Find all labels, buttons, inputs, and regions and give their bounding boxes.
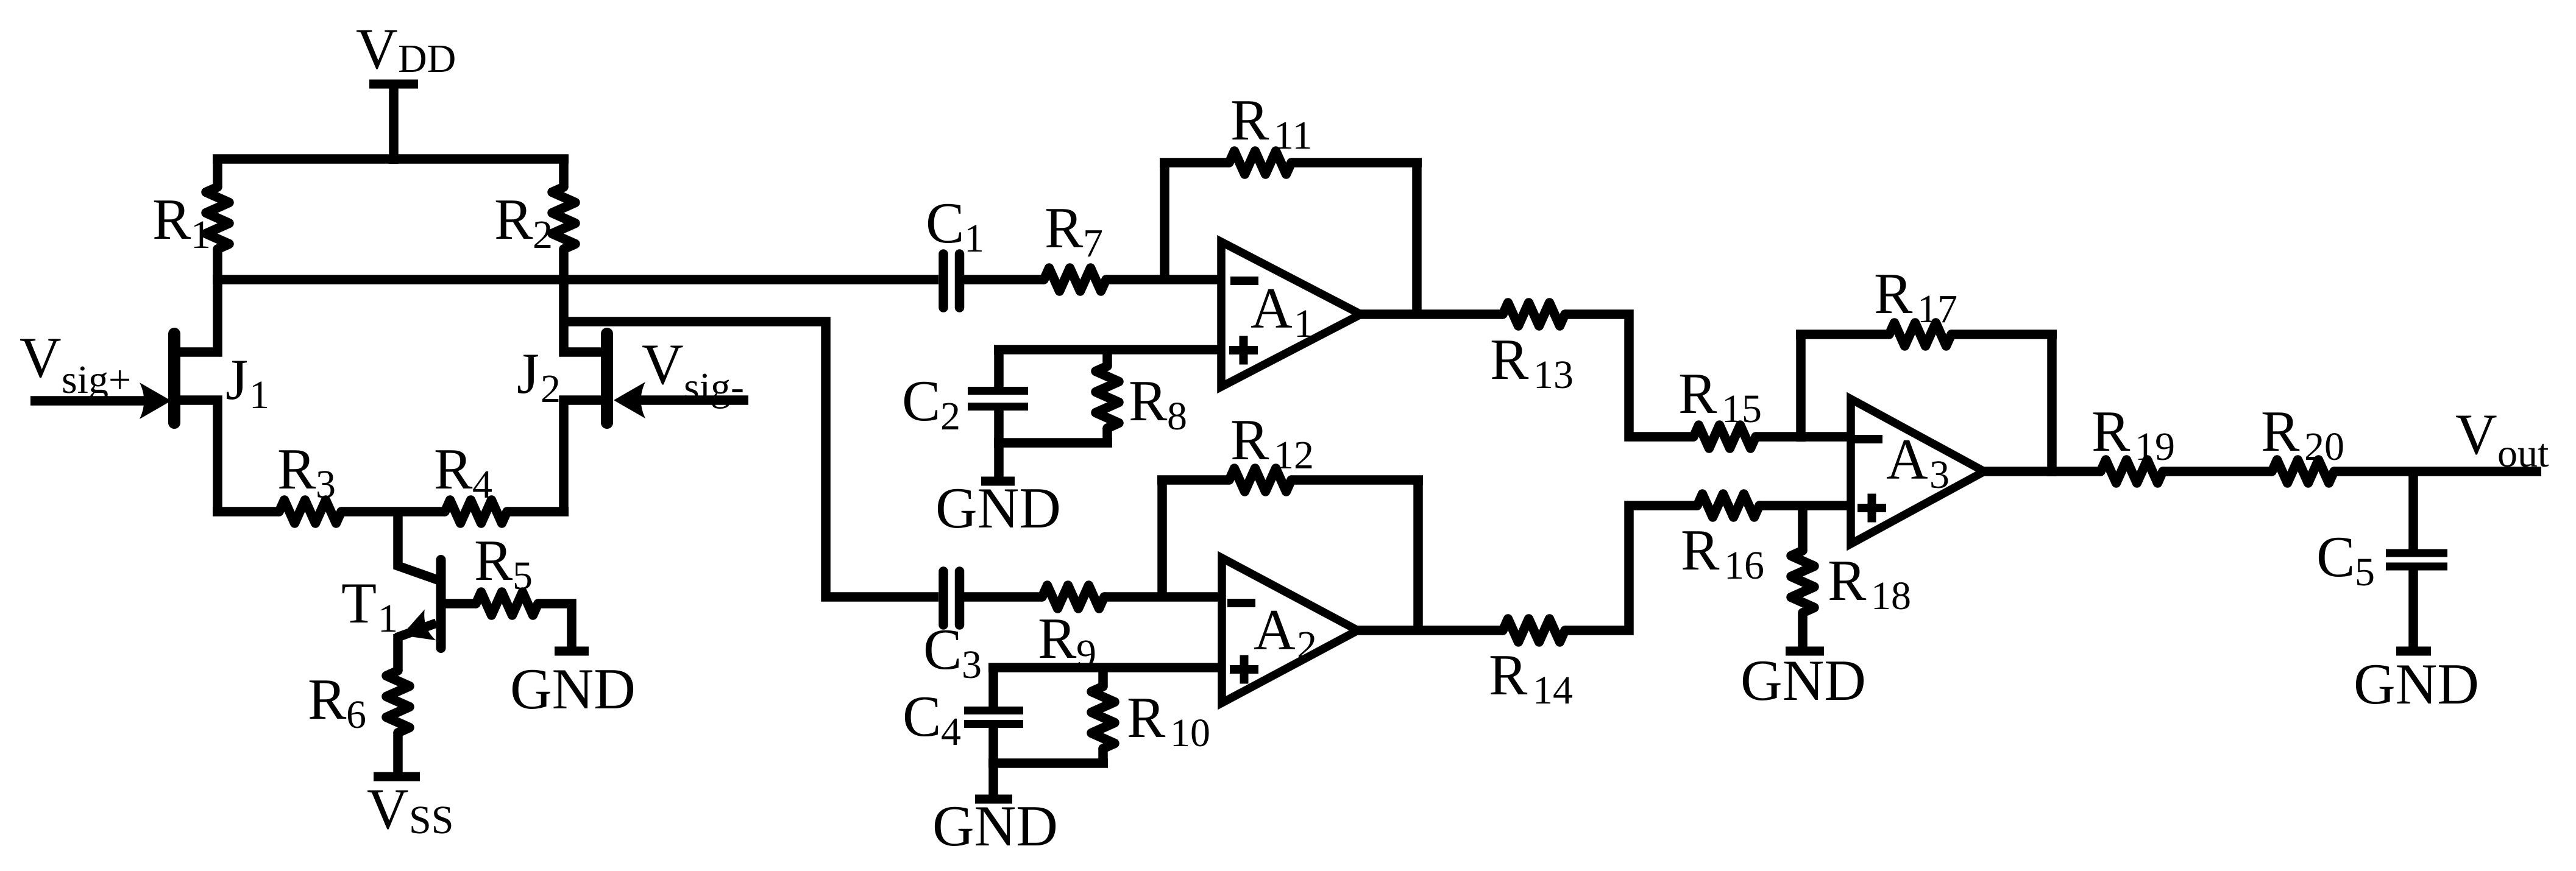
- svg-text:A: A: [1886, 427, 1928, 492]
- label R15: [1678, 361, 1762, 431]
- svg-text:C: C: [926, 191, 964, 255]
- svg-text:R: R: [1681, 518, 1720, 582]
- capacitor C1: [943, 254, 960, 308]
- capacitor C2: [968, 350, 1028, 481]
- label R18: [1828, 548, 1911, 618]
- svg-text:R: R: [434, 437, 473, 501]
- svg-text:R: R: [2092, 399, 2131, 464]
- arrow Vsig- into J2 gate: [614, 382, 645, 418]
- svg-text:19: 19: [2135, 425, 2175, 469]
- op-amp A3 minus sign: [1854, 435, 1882, 443]
- svg-text:C: C: [923, 617, 962, 682]
- wire source bus left: [213, 507, 279, 517]
- svg-text:R: R: [308, 667, 347, 732]
- wire source bus mid: [341, 507, 445, 517]
- wire drain bus to C1: [213, 275, 939, 284]
- svg-text:C: C: [2316, 524, 2355, 589]
- svg-text:DD: DD: [398, 37, 456, 81]
- svg-text:5: 5: [513, 554, 533, 598]
- wire R10 bottom to C4: [988, 758, 1108, 768]
- label R14: [1489, 643, 1573, 713]
- label R5: [474, 528, 533, 598]
- transistor J2 gate bar: [601, 334, 613, 423]
- wire R11 loop top-right: [1291, 158, 1422, 167]
- svg-text:GND: GND: [1740, 648, 1866, 713]
- wire R11 loop left: [1160, 163, 1169, 283]
- wire R5 to ground: [538, 604, 572, 649]
- wire R13 to R15 corner: [1565, 314, 1694, 437]
- transistor J1 gate bar: [168, 334, 180, 423]
- wire A1 output: [1357, 309, 1503, 319]
- svg-text:R: R: [1489, 643, 1528, 707]
- label R13: [1490, 327, 1574, 397]
- label GND (C4): [932, 794, 1058, 858]
- label A1: [1251, 276, 1314, 346]
- svg-text:2: 2: [541, 367, 561, 411]
- wire C3 to R9: [964, 592, 1042, 602]
- svg-text:R: R: [1678, 361, 1717, 426]
- wire top bus R1-R2: [213, 154, 569, 164]
- svg-text:J: J: [225, 347, 248, 412]
- svg-text:5: 5: [2355, 550, 2375, 594]
- wire R17 loop top-right: [1951, 330, 2057, 339]
- arrow T1 emitter: [402, 610, 436, 641]
- op-amp A1: [1221, 242, 1361, 387]
- resistor R8: [1096, 350, 1119, 443]
- svg-text:GND: GND: [510, 657, 636, 721]
- resistor R12: [1229, 468, 1291, 492]
- svg-text:13: 13: [1533, 353, 1574, 397]
- capacitor C5: [2386, 471, 2447, 647]
- wire R9 to A2 inverting input: [1104, 592, 1225, 602]
- resistor R7: [1044, 268, 1106, 291]
- op-amp A3: [1851, 399, 1984, 544]
- label GND (R18): [1740, 648, 1866, 713]
- ground bar R18: [1786, 647, 1824, 656]
- label R12: [1230, 407, 1314, 478]
- svg-text:7: 7: [1083, 221, 1103, 266]
- transistor T1 base lead: [444, 599, 476, 608]
- wire R12 loop left: [1157, 480, 1167, 601]
- wire R17 loop top-left: [1796, 330, 1889, 339]
- svg-text:2: 2: [1297, 623, 1317, 668]
- svg-text:R: R: [1490, 327, 1529, 392]
- op-amp A3 plus sign: [1857, 494, 1886, 523]
- svg-text:sig-: sig-: [684, 365, 744, 409]
- wire R11 loop top-left: [1160, 158, 1229, 167]
- svg-text:R: R: [474, 528, 513, 593]
- resistor R13: [1503, 303, 1565, 326]
- wire R12 loop right: [1413, 480, 1423, 635]
- label R17: [1874, 261, 1957, 331]
- wire A2 output: [1354, 626, 1503, 635]
- svg-text:V: V: [367, 777, 409, 841]
- svg-text:R: R: [152, 187, 191, 252]
- label Vout: [2455, 402, 2549, 476]
- svg-text:R: R: [1230, 407, 1269, 472]
- svg-text:A: A: [1251, 276, 1293, 340]
- svg-text:R: R: [1874, 261, 1913, 326]
- svg-text:R: R: [2261, 399, 2300, 464]
- svg-text:sig+: sig+: [62, 358, 131, 402]
- svg-text:3: 3: [962, 643, 982, 687]
- label C2: [902, 368, 960, 439]
- svg-text:3: 3: [316, 462, 336, 507]
- ground bar C2: [981, 477, 1015, 486]
- wire source bus right: [507, 507, 569, 517]
- svg-text:12: 12: [1274, 433, 1314, 478]
- svg-text:J: J: [517, 341, 539, 406]
- svg-text:1: 1: [191, 213, 211, 257]
- transistor J2 source lead: [564, 400, 606, 517]
- label R10: [1127, 685, 1210, 755]
- supply VSS bar: [374, 772, 420, 781]
- svg-text:V: V: [20, 325, 62, 390]
- label R6: [308, 667, 366, 737]
- arrow Vsig+ into J1 gate: [140, 383, 171, 419]
- label C5: [2316, 524, 2375, 594]
- svg-text:GND: GND: [935, 476, 1061, 540]
- svg-text:18: 18: [1871, 574, 1911, 618]
- svg-text:GND: GND: [2354, 652, 2479, 716]
- svg-text:8: 8: [1167, 394, 1187, 439]
- transistor J2 drain lead: [564, 280, 606, 352]
- label C4: [903, 684, 961, 754]
- ground bar C4: [975, 795, 1012, 804]
- label C3: [923, 617, 982, 687]
- wire R17 loop right: [2047, 334, 2057, 476]
- svg-text:1: 1: [249, 373, 269, 417]
- svg-text:2: 2: [533, 213, 553, 257]
- wire R20 to Vout: [2334, 467, 2541, 476]
- wire R19 to R20: [2163, 467, 2272, 476]
- wire R16 to A3 plus input: [1759, 501, 1854, 510]
- label R16: [1681, 518, 1764, 588]
- resistor R20: [2272, 460, 2334, 483]
- ground bar R5: [555, 647, 589, 656]
- wire J2 drain to C3 channel: [564, 322, 939, 597]
- label Vsig+: [20, 325, 131, 402]
- wire Vsig+ lead: [30, 396, 146, 406]
- resistor R2: [552, 159, 575, 284]
- resistor R15: [1694, 425, 1756, 448]
- label R4: [434, 437, 492, 507]
- svg-text:20: 20: [2304, 425, 2344, 469]
- svg-text:C: C: [902, 368, 940, 433]
- wire A3 output: [1981, 467, 2101, 476]
- capacitor C4: [964, 668, 1023, 799]
- label GND (R5): [510, 657, 636, 721]
- svg-text:out: out: [2497, 431, 2549, 476]
- label J1: [225, 347, 269, 417]
- transistor J1 drain lead: [176, 280, 218, 352]
- svg-text:16: 16: [1724, 543, 1764, 588]
- svg-text:3: 3: [1929, 453, 1950, 497]
- transistor T1 collector: [398, 507, 438, 580]
- label C1: [926, 191, 984, 261]
- resistor R16: [1697, 494, 1759, 517]
- op-amp A1 minus sign: [1230, 277, 1258, 285]
- transistor T1 emitter: [396, 623, 436, 638]
- ground bar C5: [2396, 647, 2431, 656]
- svg-text:V: V: [2455, 402, 2497, 467]
- wire R11 loop right: [1412, 163, 1422, 318]
- svg-text:R: R: [277, 437, 316, 501]
- resistor R3: [279, 500, 341, 523]
- wire R7 to A1 inverting input: [1106, 275, 1225, 284]
- label A2: [1254, 598, 1317, 668]
- label J2: [517, 341, 561, 411]
- wire R17 loop left: [1796, 334, 1806, 442]
- label R1: [152, 187, 211, 257]
- resistor R5: [476, 592, 538, 615]
- resistor R6: [386, 634, 410, 777]
- svg-text:11: 11: [1274, 113, 1313, 158]
- svg-text:R: R: [1045, 196, 1084, 260]
- svg-text:V: V: [642, 332, 684, 397]
- wire VDD stub: [389, 84, 399, 164]
- svg-text:T: T: [341, 571, 377, 635]
- wire C1 to R7: [964, 275, 1044, 284]
- svg-text:1: 1: [1294, 301, 1314, 346]
- label VDD: [356, 16, 456, 81]
- op-amp A2: [1222, 558, 1358, 703]
- op-amp A2 plus sign: [1230, 655, 1258, 684]
- svg-text:6: 6: [346, 693, 366, 737]
- transistor J1 source lead: [176, 400, 218, 517]
- resistor R11: [1229, 151, 1291, 174]
- wire R8 bottom to C2: [994, 438, 1112, 448]
- svg-text:A: A: [1254, 598, 1296, 662]
- label R9: [1038, 606, 1096, 676]
- svg-text:SS: SS: [409, 798, 453, 842]
- label T1: [341, 571, 398, 641]
- svg-text:2: 2: [940, 394, 960, 439]
- label R11: [1230, 88, 1313, 158]
- op-amp A1 plus sign: [1229, 336, 1258, 365]
- resistor R1: [206, 159, 229, 284]
- resistor R19: [2101, 460, 2163, 483]
- wire A2 plus input: [988, 663, 1226, 672]
- svg-text:R: R: [1127, 685, 1166, 750]
- op-amp A2 minus sign: [1227, 599, 1255, 607]
- supply VDD bar: [369, 80, 418, 89]
- resistor R9: [1042, 585, 1104, 608]
- wire A1 plus input: [994, 345, 1225, 354]
- svg-text:17: 17: [1917, 287, 1957, 331]
- label VSS: [367, 777, 453, 842]
- wire R12 loop top-right: [1291, 475, 1423, 485]
- resistor R10: [1091, 668, 1115, 763]
- svg-text:15: 15: [1722, 387, 1762, 431]
- wire R12 loop top-left: [1157, 475, 1229, 485]
- transistor T1 base bar: [436, 560, 446, 648]
- resistor R4: [445, 500, 507, 523]
- svg-text:R: R: [1129, 368, 1168, 433]
- label GND (C2): [935, 476, 1061, 540]
- svg-text:R: R: [1038, 606, 1077, 671]
- svg-text:R: R: [494, 187, 533, 252]
- wire Vsig- lead: [639, 395, 748, 405]
- svg-text:R: R: [1230, 88, 1269, 152]
- svg-text:C: C: [903, 684, 941, 749]
- svg-text:GND: GND: [932, 794, 1058, 858]
- wire R14 to R16 corner: [1565, 506, 1697, 630]
- svg-text:R: R: [1828, 548, 1867, 613]
- svg-text:V: V: [356, 16, 398, 81]
- resistor R18: [1791, 506, 1814, 651]
- svg-text:1: 1: [964, 216, 984, 261]
- capacitor C3: [943, 571, 960, 625]
- label A3: [1886, 427, 1950, 497]
- svg-text:10: 10: [1170, 711, 1210, 755]
- label R19: [2092, 399, 2175, 469]
- label GND (C5): [2354, 652, 2479, 716]
- label R20: [2261, 399, 2344, 469]
- svg-text:14: 14: [1533, 668, 1573, 713]
- label Vsig-: [642, 332, 744, 409]
- resistor R17: [1889, 323, 1951, 346]
- resistor R14: [1503, 619, 1565, 642]
- label R3: [277, 437, 336, 507]
- wire R15 to A3 inverting input: [1756, 432, 1854, 442]
- svg-text:4: 4: [472, 462, 492, 507]
- svg-text:4: 4: [941, 710, 961, 754]
- label R8: [1129, 368, 1187, 439]
- label R2: [494, 187, 553, 257]
- label R7: [1045, 196, 1103, 266]
